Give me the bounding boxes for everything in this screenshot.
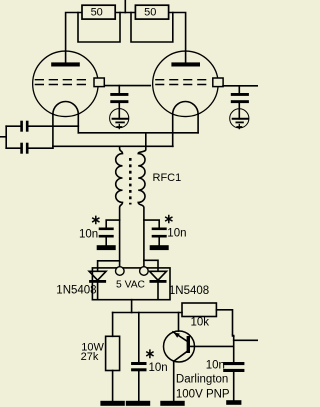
resistor R1 27k lead [112,313,114,337]
capacitor feedthrough C2 plates [231,93,249,96]
transistor Q1 base bar [187,336,190,353]
resistor R2 10k body [182,303,216,317]
inductor loop L1 (under left 50 box) [78,13,120,43]
wire R2 to cap chain [216,310,233,362]
inductor RFC1 left winding [116,146,123,266]
capacitor feedthrough C2 lead to ground cup [238,103,240,119]
resistor 50 (right parasitic suppressor) [135,5,168,19]
capacitor C8 10n plates [223,362,244,365]
capacitor C6 10n branch [144,220,159,227]
wire emitter feed [178,313,180,332]
wire V2 filament leg left [172,114,174,146]
transistor Q1 collector [174,351,188,362]
label * C5 (drawn asterisk) [92,216,99,225]
svg-text:1N5408: 1N5408 [169,285,209,297]
ground bar C6 [150,245,169,250]
ground cross C2 [237,125,242,129]
capacitor feedthrough C2 lead [238,86,240,93]
svg-text:10k: 10k [191,316,210,328]
wire diode D1 feed [98,261,120,271]
svg-text:10n: 10n [149,362,168,374]
wire plate top rail with plate leads [66,13,186,63]
tube V2 plate [171,62,200,66]
capacitor C5 ground lead [105,238,107,246]
resistor 50 (left parasitic suppressor) [82,5,115,19]
svg-text:50: 50 [91,7,103,19]
wire input bus [5,126,7,148]
resistor R1 27k body [106,336,120,370]
wire bus A (filament leg A) [78,132,198,134]
svg-text:10n: 10n [167,227,186,239]
capacitor C7 plates [131,362,146,365]
capacitor C7 ground lead [138,371,140,401]
ground bars inside C1 [113,118,128,120]
diode D1 1N5408 [89,271,106,280]
node plate feed top [124,0,126,13]
transistor Q1 emitter arrow [174,332,180,337]
wire V1 filament leg right [77,114,79,133]
svg-text:27k: 27k [81,351,99,363]
capacitor feedthrough C1 lead to ground cup [118,103,120,119]
svg-text:RFC1: RFC1 [153,172,182,184]
capacitor C6 plates [152,228,167,231]
capacitor C5 10n branch [106,220,119,227]
tube V2 envelope [153,51,219,117]
ground bar C8 [226,400,241,405]
transistor Q1 base lead [190,345,234,347]
ground bar Q1 [160,401,184,406]
tube V2 grid dashes [155,80,206,85]
tube V1 envelope [33,51,99,117]
ground bar C5 [97,245,116,250]
wire input top branch [6,125,78,127]
inductor RFC1 core dotted line [129,158,132,205]
svg-text:5 VAC: 5 VAC [116,279,146,290]
tube V1 plate [51,62,80,66]
capacitor C7 10n lead [138,313,140,363]
ground bar C7 [126,401,150,406]
wire bias rail [113,312,182,314]
capacitor C8 ground lead [233,372,235,400]
wire collector to ground [173,361,175,401]
wire bus B (filament leg B) [53,145,173,147]
wire V2 filament leg right [197,114,199,133]
ground shield circle C2 [230,109,249,128]
capacitor C5 plates [99,228,114,231]
capacitor input C3 plates [20,121,23,132]
capacitor feedthrough C1 plates [110,93,128,96]
ground shield circle C1 [110,109,129,128]
wire RF input stub [0,136,6,138]
label * C6 (drawn asterisk) [165,215,172,224]
transistor Q1 envelope [164,331,195,362]
svg-text:100V PNP: 100V PNP [176,389,230,401]
transistor Q1 emitter [173,332,187,341]
resistor R1 ground lead [112,371,114,401]
wire V1 filament leg left [52,114,54,148]
inductor RFC1 right winding [138,133,146,267]
terminal circle left [116,267,125,276]
wire grid V2 to right edge [223,85,258,87]
inductor loop L2 (under right 50 box) [131,13,173,43]
svg-text:Darlington: Darlington [176,374,228,386]
transformer box 5 VAC [92,268,170,300]
capacitor input C4 plates [20,143,23,154]
terminal circle right [140,267,149,276]
wire grid V1 to V2 [104,85,150,87]
ground bar R1 [100,401,124,406]
tube V1 grid dashes [35,80,86,85]
tube V1 cathode dome [53,102,78,115]
svg-text:10n: 10n [79,228,98,240]
svg-text:50: 50 [144,7,156,19]
svg-text:1N5408: 1N5408 [56,284,96,296]
capacitor C6 ground lead [158,238,160,246]
diode D2 1N5408 [150,271,167,280]
tube V2 cathode dome [173,101,198,114]
svg-text:10n: 10n [206,360,225,372]
wire to right edge [234,339,258,341]
tube V2 grid pin square [213,78,223,87]
label * C7 (drawn asterisk) [146,349,153,358]
ground bars inside C2 [233,118,248,120]
ground cross C1 [117,125,122,129]
wire diode D2 feed [144,260,158,271]
tube V1 grid pin square [94,78,104,87]
wire 5VAC box to bias rail [131,300,133,313]
capacitor feedthrough C1 lead [118,86,120,93]
wire input bottom branch [6,147,53,149]
